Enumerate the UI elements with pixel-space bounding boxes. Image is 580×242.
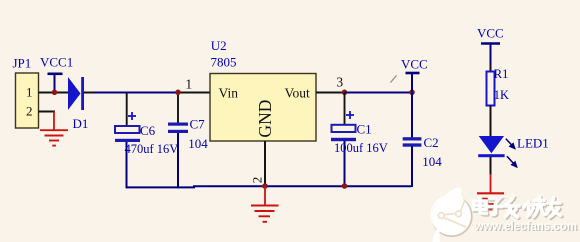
capacitor C7 plates (168, 123, 188, 134)
U2 pin 3 wire (316, 92, 345, 94)
svg-text:U2: U2 (211, 38, 227, 53)
LED LED1 cathode bar (478, 154, 504, 157)
junction dot at VCC1/JP1/D1 node (52, 90, 58, 96)
wire R1 to LED1 (490, 106, 492, 137)
watermark logo circle (431, 188, 472, 242)
svg-text:3: 3 (336, 75, 343, 90)
junction dot at C1 node (top) (342, 90, 348, 96)
junction dot at C7 node (175, 90, 181, 96)
wire GND node to ground (red) (264, 186, 266, 205)
svg-text:C6: C6 (140, 123, 156, 138)
regulator U2 body (210, 74, 316, 142)
capacitor C6 (electrolytic) plates (115, 126, 140, 133)
svg-text:VCC: VCC (477, 26, 504, 41)
svg-text:C7: C7 (190, 117, 206, 132)
svg-text:104: 104 (422, 154, 442, 169)
svg-text:JP1: JP1 (13, 56, 32, 71)
LED LED1 triangle (479, 136, 504, 153)
capacitor C1 plus sign (346, 111, 354, 119)
power port VCC (middle) bar symbol (406, 73, 420, 93)
capacitor C2 lower wire (411, 147, 413, 188)
svg-text:7805: 7805 (211, 55, 237, 70)
capacitor C6 upper pin wire (126, 93, 128, 127)
svg-text:Vout: Vout (285, 86, 311, 101)
svg-text:Vin: Vin (219, 86, 239, 101)
ground GND1 (left) (40, 130, 68, 145)
connector JP1 body (16, 73, 39, 128)
wire D1 cathode to U2 Vin net (84, 92, 94, 94)
R1 top pin wire (490, 63, 492, 72)
U2 pin 2 wire (264, 141, 266, 186)
capacitor C1 (electrolytic) plates (332, 125, 356, 132)
junction dot at C1 bottom node (342, 183, 348, 189)
svg-text:VCC: VCC (401, 57, 428, 72)
svg-text:104: 104 (188, 136, 208, 151)
svg-text:1K: 1K (494, 88, 509, 102)
capacitor C1 lower wire (344, 141, 346, 187)
svg-text:C2: C2 (424, 135, 439, 150)
svg-text:1: 1 (26, 85, 33, 100)
wire C7 node to U2 pin1 (178, 92, 210, 94)
capacitor C6 lower wire (126, 142, 128, 188)
svg-text:R1: R1 (494, 67, 509, 81)
capacitor C7 lower wire (177, 133, 179, 188)
junction dot at U2 GND node (262, 183, 268, 189)
junction dot at VCC node (409, 90, 415, 96)
svg-text:D1: D1 (73, 116, 89, 131)
wire C1 node to VCC node (345, 92, 413, 94)
wire LED1 to ground (490, 157, 492, 175)
ground GND3 (right) (477, 193, 504, 209)
power port VCC (right) bar symbol (481, 44, 500, 65)
resistor R1 body (487, 72, 495, 106)
stray slash artifact (391, 76, 397, 83)
svg-text:100uf 16V: 100uf 16V (334, 141, 388, 155)
capacitor C7 upper pin wire (177, 93, 179, 124)
svg-text:www.elecfans.com: www.elecfans.com (474, 221, 577, 233)
capacitor C6 plus sign (128, 112, 136, 120)
capacitor C2 plates (403, 137, 422, 147)
JP1 pin 2 wire (39, 111, 56, 113)
svg-text:LED1: LED1 (517, 136, 549, 151)
svg-text:1: 1 (185, 77, 192, 92)
svg-text:470uf 16V: 470uf 16V (125, 142, 179, 156)
diode D1 (68, 77, 84, 110)
svg-text:VCC1: VCC1 (40, 55, 73, 70)
ground GND2 (center) (251, 206, 279, 222)
svg-text:C1: C1 (357, 122, 372, 137)
svg-text:2: 2 (26, 104, 33, 119)
watermark url text (474, 221, 579, 234)
wire pin2 to ground (red) (53, 112, 55, 131)
svg-text:GND: GND (255, 100, 275, 138)
capacitor C2 upper wire (411, 93, 413, 139)
power port VCC1 bar symbol (48, 74, 63, 93)
svg-text:2: 2 (250, 177, 265, 184)
JP1 pin 1 wire (39, 92, 69, 94)
capacitor C1 upper pin wire (344, 93, 346, 126)
LED LED1 emission arrows (506, 139, 517, 167)
bottom rail wire (127, 186, 412, 187)
